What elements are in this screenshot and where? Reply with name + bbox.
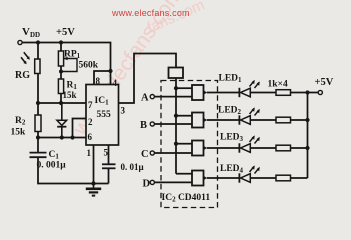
svg-text:C: C: [141, 149, 149, 160]
wire pin 3 output route: [119, 54, 177, 104]
svg-text:2: 2: [88, 117, 93, 127]
wire LED1 to R: [251, 92, 277, 94]
svg-text:1: 1: [87, 148, 92, 158]
node junction pin7 wire left: [36, 101, 40, 105]
node junction clock gate1: [174, 86, 178, 90]
node junction R1 bottom: [59, 101, 63, 105]
wire gate4 clock stub: [176, 173, 192, 175]
wire clock vertical line: [175, 88, 177, 174]
potentiometer RP1 560k: [58, 51, 77, 72]
wire terminal D to gate4: [154, 181, 192, 183]
wire pin 2 branch: [73, 119, 87, 138]
op-amp 555 IC1 box: [86, 85, 119, 146]
wire R1k row3 to rail: [291, 147, 308, 149]
svg-text:15k: 15k: [11, 128, 27, 138]
wire gate2 output to LED2: [207, 119, 239, 121]
wire gate3 output to LED3: [207, 147, 239, 149]
svg-text:6: 6: [88, 132, 93, 142]
node junction R2 bottom: [36, 135, 40, 139]
wire R1k row2 to rail: [291, 119, 308, 121]
terminal VDD: [18, 40, 22, 44]
svg-text:+5V: +5V: [56, 27, 75, 38]
svg-text:IC1: IC1: [95, 96, 110, 107]
wire +5V right rail vertical: [307, 93, 309, 179]
wire gate1 clock stub: [176, 87, 192, 89]
node junction pin8/pin4: [108, 69, 112, 73]
LED4: [239, 165, 259, 182]
node D terminal: [150, 180, 154, 184]
LED1: [239, 80, 259, 97]
wire pin 5 to C2: [108, 145, 110, 164]
svg-text:B: B: [140, 120, 147, 131]
wire pin 8 branch: [94, 71, 111, 85]
svg-text:555: 555: [97, 110, 112, 120]
wire terminal A to gate1: [154, 96, 192, 98]
resistor R1 15k: [58, 79, 63, 94]
svg-text:3: 3: [121, 106, 126, 116]
node junction ground: [91, 181, 95, 185]
svg-text:15k: 15k: [63, 90, 77, 100]
watermark diagonal pale 1: [68, 0, 187, 140]
wire gate2 clock stub: [176, 115, 192, 117]
terminal +5V right: [318, 90, 322, 94]
ground: [86, 184, 101, 196]
wire pin 7 horizontal: [38, 102, 86, 104]
resistor RG photoresistor: [21, 52, 40, 73]
wire C1 to bottom rail: [38, 158, 109, 184]
svg-text:IC2 CD4011: IC2 CD4011: [162, 193, 211, 204]
wire clock stem into dashed box: [175, 78, 177, 88]
node junction RP1 wiper: [59, 70, 63, 74]
wire terminal C to gate3: [154, 152, 192, 154]
node junction rail row3: [305, 146, 309, 150]
wire gate1 output to LED1: [207, 92, 239, 94]
svg-text:A: A: [141, 93, 149, 104]
gate U2C nand: [192, 141, 207, 156]
node junction rail row2: [305, 118, 309, 122]
wire gate4 output to LED4: [207, 177, 239, 179]
wire LED2 to R: [251, 119, 277, 121]
svg-text:LED2: LED2: [218, 106, 242, 117]
LED2: [239, 107, 259, 124]
node junction clock gate3: [174, 142, 178, 146]
watermark diagonal pale 2: [145, 0, 208, 37]
LED3: [239, 135, 259, 152]
svg-text:LED1: LED1: [219, 74, 243, 85]
node junction clock gate2: [174, 114, 178, 118]
resistor 1k row2: [276, 117, 291, 123]
diode VD: [57, 103, 67, 138]
capacitor C2: [102, 164, 116, 168]
node B terminal: [150, 122, 154, 126]
svg-text:8: 8: [96, 76, 101, 86]
svg-text:5: 5: [104, 148, 109, 158]
svg-text:+5V: +5V: [315, 77, 334, 88]
node junction top RG: [36, 40, 40, 44]
IC2 CD4011 dashed box: [161, 81, 218, 208]
wire C2 to rail: [108, 169, 110, 184]
node junction pin2 bottom: [70, 135, 74, 139]
svg-text:7: 7: [88, 100, 93, 110]
svg-text:LED4: LED4: [220, 164, 244, 175]
svg-text:C1: C1: [49, 150, 60, 161]
wire LED4 to R: [251, 177, 277, 179]
wire R1k row4 to rail: [291, 177, 308, 179]
svg-text:R2: R2: [15, 116, 26, 127]
node A terminal: [150, 95, 154, 99]
svg-text:LED3: LED3: [220, 133, 244, 144]
node C terminal: [150, 151, 154, 155]
wire RP1/R1 chain down: [60, 43, 62, 104]
svg-text:www.elecfans.com: www.elecfans.com: [111, 8, 190, 18]
wire R1k row1 to +5V terminal: [291, 92, 319, 94]
wire LED3 to R: [251, 147, 277, 149]
resistor 1k row3: [276, 145, 291, 151]
svg-text:RP1: RP1: [64, 50, 81, 61]
svg-text:0. 001μ: 0. 001μ: [37, 161, 67, 171]
node junction diode bottom: [60, 135, 64, 139]
wire R2 to pin6 rail: [38, 132, 86, 138]
svg-text:D: D: [143, 179, 151, 190]
resistor 1k row1: [276, 90, 291, 96]
svg-text:4: 4: [113, 78, 118, 88]
wire gate3 clock stub: [176, 143, 192, 145]
capacitor C1: [30, 153, 47, 158]
gate U2A nand: [192, 85, 207, 100]
resistor clock series box: [169, 68, 184, 79]
svg-text:560k: 560k: [79, 61, 99, 71]
wire RG branch down: [37, 43, 39, 116]
node junction rail row1: [305, 90, 309, 94]
wire terminal B to gate2: [154, 123, 192, 125]
svg-text:RG: RG: [15, 70, 30, 81]
gate U2B nand: [192, 113, 207, 128]
resistor 1k row4: [276, 175, 291, 181]
resistor R2 15k: [35, 115, 41, 132]
gate U2D nand: [192, 171, 207, 186]
wire pin 1 down: [93, 145, 95, 184]
node junction top RP1: [59, 40, 63, 44]
svg-text:0. 01μ: 0. 01μ: [121, 162, 144, 172]
wire C1 branch: [37, 138, 39, 153]
wire +5V top rail to pin 4: [20, 43, 111, 85]
svg-text:1k×4: 1k×4: [268, 80, 288, 90]
